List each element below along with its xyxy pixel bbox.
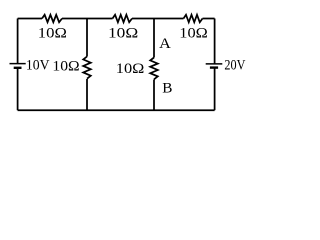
svg-text:10Ω: 10Ω (179, 26, 208, 42)
battery V2 long plate (206, 63, 223, 65)
svg-text:10Ω: 10Ω (108, 25, 138, 41)
wire top segment between R1 and R2 (62, 18, 113, 20)
svg-text:10Ω: 10Ω (52, 58, 79, 74)
resistor R1 (42, 15, 62, 23)
wire top-left segment (18, 18, 42, 20)
resistor R2 (113, 15, 133, 23)
wire branch 2 upper (top wire to R4) (86, 19, 88, 57)
wire branch 3 lower (R5 to node B and bottom wire) (153, 80, 155, 111)
wire right side upper (to battery V2) (214, 19, 216, 64)
battery V2 short plate (210, 66, 218, 68)
wire left side lower (battery V1 to bottom) (17, 68, 19, 110)
svg-text:20V: 20V (224, 57, 245, 73)
resistor R3 (184, 15, 203, 23)
svg-text:A: A (159, 36, 171, 52)
svg-text:B: B (162, 81, 172, 97)
battery V1 long plate (10, 63, 26, 65)
svg-text:10Ω: 10Ω (116, 61, 145, 77)
wire bottom (18, 109, 215, 111)
wire top segment between R2 and R3 (132, 18, 184, 20)
wire branch 3 upper (node A to R5) (153, 19, 155, 58)
wire right side lower (battery V2 to bottom) (214, 68, 216, 111)
battery V1 short plate (14, 67, 22, 69)
svg-text:10V: 10V (26, 57, 50, 73)
resistor R5 (150, 58, 158, 80)
wire top-right segment (203, 18, 215, 20)
resistor R4 (83, 57, 91, 79)
wire branch 2 lower (R4 to bottom wire) (86, 79, 88, 110)
svg-text:10Ω: 10Ω (38, 25, 67, 41)
wire left side upper (to battery V1) (17, 19, 19, 64)
